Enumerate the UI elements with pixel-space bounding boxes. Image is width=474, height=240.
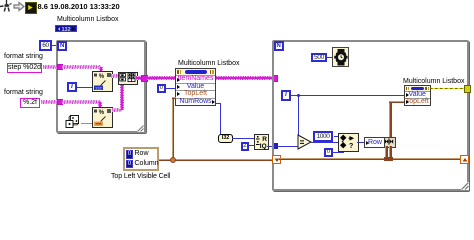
wire: 1000 to select — [334, 136, 339, 137]
svg-text:%: % — [99, 110, 105, 116]
wire: i to Value (right node) — [291, 95, 404, 96]
svg-text:132: 132 — [61, 27, 70, 32]
wire: bottom brown inside loop2 — [279, 158, 460, 161]
toolbar icon: edit tool hand — [0, 0, 13, 13]
constant: 60 — [39, 40, 52, 51]
N terminal loop2 — [274, 41, 284, 51]
property node: Multicolumn Listbox (middle) — [175, 68, 216, 106]
wire: 0 to Value row — [165, 88, 176, 89]
wire: dice to fmt2 (orange DBL) — [81, 123, 92, 125]
label: Multicolumn Listbox (terminal) — [57, 16, 118, 23]
wire: 60 to N — [51, 45, 58, 46]
row TopLeft — [176, 90, 215, 97]
wire: step const to tunnel — [43, 65, 57, 69]
shift register left — [272, 155, 281, 164]
node: equal? — [297, 134, 313, 150]
terminal: multicolumn listbox control — [55, 25, 77, 33]
node: bundle by name Row — [364, 137, 386, 148]
wire: bundle out down to SR wire — [389, 146, 392, 159]
wire: tunnel2 to fmt node 2 — [62, 100, 101, 104]
wire: bundle out up to TopLeft (right node) — [389, 101, 392, 138]
wire: brown vertical cluster to TopLeft — [172, 97, 175, 160]
wire: i to fmt1 — [77, 87, 92, 88]
tunnel: loop1 out (array of strings) — [141, 75, 148, 82]
constant: 500 — [311, 53, 327, 63]
label: format string 2 — [4, 89, 43, 96]
junction: cluster wire ring — [170, 157, 176, 163]
wire: conv to QR — [232, 138, 254, 139]
wire: refnum dashed to edge — [430, 88, 464, 90]
label: Top Left Visible Cell — [111, 173, 170, 180]
for loop 2 (right) — [272, 40, 469, 191]
tunnel: refnum out — [464, 85, 472, 93]
toolbar icon: white right arrow — [13, 1, 25, 12]
row Value — [405, 91, 430, 98]
wire: QR out to tunnel — [267, 146, 272, 147]
wire: 0 to select — [332, 152, 344, 153]
node: quotient & remainder — [254, 134, 269, 150]
wire: bundle in from bottom — [385, 146, 388, 159]
row TopLeft — [405, 98, 430, 105]
constant: 0 (select f) — [324, 148, 333, 157]
node: wait until next ms multiple (metronome) — [332, 47, 349, 67]
tunnel: format string 2 — [57, 99, 63, 105]
wire: select out to bundle — [357, 142, 365, 143]
node: Format Into String 1 — [92, 71, 113, 92]
svg-text:R: R — [262, 136, 267, 143]
svg-text:132: 132 — [95, 85, 102, 90]
junction: i wire — [297, 94, 301, 98]
toolbar text: version and date — [38, 2, 120, 11]
constant: 0 (value) — [157, 84, 166, 94]
constant: step %02d — [7, 63, 42, 73]
row ItemNames — [176, 75, 215, 82]
wire: long ItemNames wire loop1 to prop node — [147, 76, 175, 80]
row NumRows — [176, 98, 215, 105]
label: Multicolumn Listbox (middle prop node) — [178, 60, 239, 67]
constant: 1000 — [313, 131, 333, 142]
wire: 2 to QR — [248, 145, 254, 146]
tunnel: blue I32 into loop2 — [272, 143, 278, 149]
header — [176, 69, 215, 75]
node: build array — [118, 72, 138, 85]
for loop 1 (left) — [56, 40, 146, 133]
tunnel: format string 1 — [57, 64, 63, 70]
resize glyph loop2 — [461, 182, 469, 190]
wire: tunnel1 to fmt node 1 — [62, 65, 101, 69]
wire: fmt2 out up to build array — [112, 108, 122, 112]
wire: build array out to tunnel — [136, 76, 143, 80]
node: dice random — [64, 114, 82, 130]
wire: fmt1 out to build array — [111, 74, 119, 78]
toolbar icon: run button dark box with yellow arrow — [25, 2, 37, 14]
wire: junction down to equal — [298, 95, 299, 139]
tunnel: loop2 itemnames in — [272, 75, 279, 82]
wire: prop node to loop2 — [216, 76, 273, 80]
node: Format Into String 2 — [92, 107, 113, 128]
label: format string 1 — [4, 53, 43, 60]
wire: %.2f to tunnel2 — [41, 100, 57, 104]
row Value — [176, 83, 215, 90]
svg-text:IQ: IQ — [260, 143, 267, 150]
wire: NumRows out down — [216, 103, 221, 104]
label: Multicolumn Listbox (right node) — [403, 78, 464, 85]
cluster constant: top left visible cell — [123, 147, 159, 171]
resize glyph loop1 — [137, 125, 144, 132]
property node: Multicolumn Listbox (right) — [404, 85, 431, 106]
i terminal loop1 — [67, 82, 78, 93]
constant: 2 — [241, 142, 250, 151]
svg-text:%: % — [99, 74, 105, 80]
node: to I32 conversion — [218, 134, 233, 143]
constant: %.2f — [20, 98, 40, 108]
wire: 500 to wait — [326, 57, 332, 58]
N terminal loop1 — [57, 41, 67, 51]
svg-text:?: ? — [349, 143, 353, 150]
i terminal loop2 — [281, 90, 292, 101]
junction: bundle branch — [384, 157, 393, 161]
wire: equal out to select — [311, 142, 338, 143]
wire: cluster to SR left — [159, 159, 272, 162]
wire: tunnel to equal — [278, 146, 299, 147]
shift register right — [460, 155, 469, 164]
node: select — [338, 133, 359, 152]
